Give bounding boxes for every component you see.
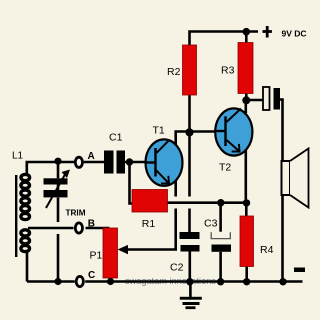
svg-text:C3: C3	[204, 218, 218, 230]
junction C2 bottom / ground symbol	[186, 278, 193, 285]
svg-text:R3: R3	[221, 64, 235, 76]
capacitor C3 hollow plate	[211, 232, 230, 238]
junction R3 / T2 collector / C4	[242, 96, 250, 104]
wire T1 base node down to R1 left	[130, 162, 134, 204]
wire P1 bottom stub	[109, 277, 112, 282]
wire T2 emitter lead down to R4	[245, 151, 248, 204]
wire C3 top lead	[219, 203, 222, 232]
wire R4 top lead	[245, 203, 248, 216]
wire ring A to C1	[84, 161, 104, 164]
wire R3 top lead	[245, 32, 248, 43]
wire T2 collector lead	[245, 100, 248, 113]
svg-text:C2: C2	[170, 261, 184, 273]
inductor L1 core bar	[15, 175, 17, 257]
wire emitter riser upper segment (T1 collector jog to node)	[176, 132, 190, 197]
resistor R1	[132, 190, 168, 213]
wire B row: coil tap to ring B	[28, 227, 74, 230]
svg-text:C1: C1	[109, 132, 123, 144]
junction trimmer top / A rail	[54, 158, 61, 165]
junction R3 top / supply rail	[243, 28, 251, 36]
ground	[180, 297, 202, 309]
speaker	[282, 149, 309, 208]
wire bottom rail right of ring C	[85, 280, 302, 283]
svg-text:9V DC: 9V DC	[282, 29, 307, 39]
wire ground stem	[189, 282, 192, 298]
wire R1 output row	[167, 201, 247, 204]
junction T2 emitter / R4 top	[243, 199, 250, 206]
junction C3 bottom / ground rail	[217, 278, 224, 285]
wire R3 bottom lead	[245, 94, 248, 101]
wire node riser lower segment into C2	[188, 209, 191, 233]
junction P1 bottom / ground rail	[107, 278, 114, 285]
capacitor C4 hollow plate	[263, 87, 270, 110]
wire C4 to speaker riser	[280, 100, 283, 282]
capacitor C1 plates	[104, 151, 125, 174]
junction trimmer bottom / ground rail	[54, 278, 61, 285]
plus supply symbol	[263, 26, 272, 38]
svg-text:TRIM: TRIM	[66, 209, 86, 218]
wire R2 bottom lead to node	[188, 95, 191, 197]
wire trimmer lead bottom	[57, 234, 60, 282]
wire top supply rail	[190, 32, 259, 46]
svg-text:B: B	[88, 218, 95, 229]
inductor L1 coil loops	[21, 174, 30, 251]
wire C3 bottom lead	[219, 252, 222, 282]
wire ring B to P1 top	[86, 227, 110, 230]
wire trimmer lead mid (jumps over B wire)	[57, 198, 60, 222]
node A terminal ring	[75, 157, 82, 167]
potentiometer P1	[103, 228, 118, 278]
wire C2 bottom lead	[189, 252, 192, 282]
wire R4 bottom lead	[245, 267, 248, 282]
potentiometer P1 wiper arrow	[118, 245, 129, 254]
wire node to C4	[246, 99, 263, 102]
wire T2 base from node	[190, 130, 216, 133]
svg-text:C: C	[88, 270, 95, 281]
svg-text:A: A	[88, 151, 95, 162]
node C terminal ring	[76, 276, 83, 286]
trimmer TRIM plates	[44, 178, 68, 197]
svg-text:T1: T1	[153, 125, 165, 137]
wire P1 wiper line to vertical riser	[124, 209, 176, 250]
svg-text:P1: P1	[90, 250, 103, 262]
svg-text:R1: R1	[142, 218, 156, 230]
svg-text:R2: R2	[167, 66, 181, 78]
svg-text:T2: T2	[219, 162, 231, 174]
trimmer TRIM arrow	[46, 175, 65, 209]
resistor R3	[238, 43, 253, 94]
wire L1 bottom lead	[26, 252, 29, 282]
junction R4 bottom / ground rail	[243, 278, 250, 285]
resistor R2	[183, 45, 197, 95]
junction R1 wire / C3 top	[217, 199, 224, 206]
wire A row: L1 top to ring A	[27, 162, 75, 175]
junction speaker riser / ground rail	[279, 278, 286, 285]
svg-text:L1: L1	[12, 151, 24, 162]
transistor T1	[146, 139, 183, 185]
capacitor C4 solid plate	[274, 88, 281, 110]
wire bottom rail left of ring C	[27, 280, 75, 283]
capacitor C2 plates	[180, 232, 200, 252]
transistor T2	[215, 108, 252, 155]
junction C1 / T1 base / R1	[126, 158, 133, 165]
minus supply symbol	[294, 268, 305, 273]
resistor R4	[240, 216, 254, 267]
svg-text:R4: R4	[260, 244, 274, 256]
node B terminal ring	[75, 223, 82, 233]
capacitor C3 solid plate	[212, 245, 232, 252]
wire C1 to T1 base	[125, 161, 155, 164]
junction R2 / T1 collector / T2 base / C2	[185, 128, 193, 136]
wire trimmer top lead	[57, 161, 60, 178]
